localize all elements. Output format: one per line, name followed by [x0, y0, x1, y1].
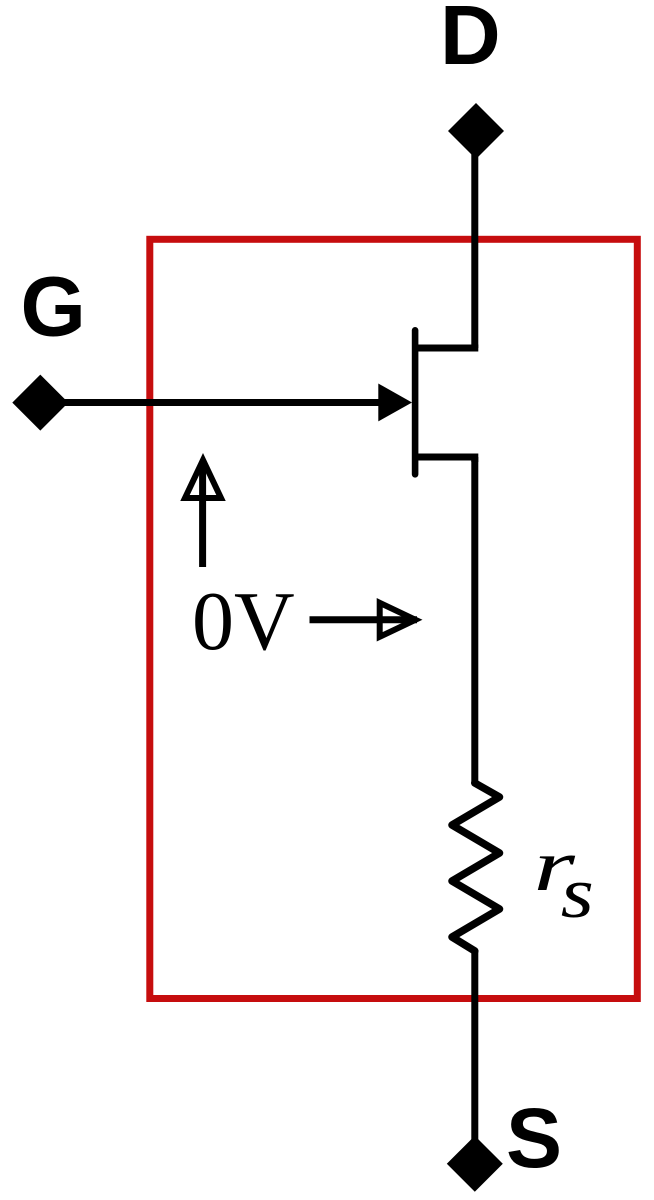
gate arrowhead (filled): [378, 384, 412, 422]
red boundary box: [150, 239, 638, 998]
terminal G diamond: [12, 375, 68, 431]
resistor rs zigzag: [452, 783, 500, 951]
open right arrow shaft: [310, 616, 418, 623]
transistor Q1 drain contact: [415, 348, 475, 352]
open up arrowhead: [185, 460, 221, 498]
wire: resistor down to S terminal: [471, 951, 478, 1164]
open up arrow shaft: [199, 462, 206, 567]
svg-text:D: D: [440, 0, 501, 82]
svg-text:s: s: [561, 854, 594, 934]
wire: gate from G terminal to transistor: [40, 399, 404, 406]
open right arrowhead: [380, 603, 416, 637]
svg-text:0V: 0V: [192, 575, 295, 668]
terminal D diamond: [448, 103, 504, 159]
svg-text:G: G: [21, 260, 86, 354]
wire: source contact down to resistor: [471, 457, 478, 783]
transistor Q1 source contact: [415, 457, 475, 462]
transistor Q1 channel bar: [412, 330, 419, 474]
svg-text:S: S: [506, 1091, 562, 1185]
terminal S diamond: [447, 1136, 503, 1192]
wire: D terminal down to drain contact: [471, 131, 478, 348]
